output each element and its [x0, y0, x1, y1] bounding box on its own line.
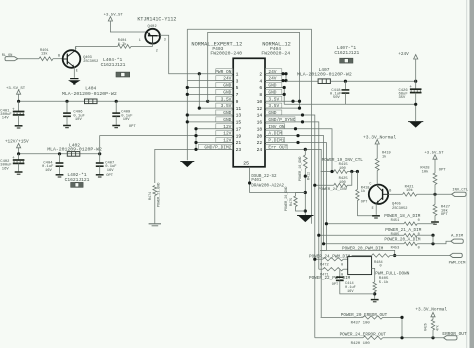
resistor R404 — [118, 45, 131, 49]
svg-text:24: 24 — [257, 147, 263, 153]
resistor R484 — [372, 254, 390, 257]
wire R421 to INV node — [417, 193, 452, 195]
resistor R419 — [375, 159, 379, 171]
wire Q405 collector join — [376, 185, 378, 186]
svg-text:POWER_24_INV: POWER_24_INV — [318, 188, 347, 192]
pin number 19 — [236, 133, 242, 139]
wire R419 to Q405 — [376, 171, 378, 185]
svg-text:RL_ON: RL_ON — [2, 54, 13, 58]
pin number 5 — [236, 85, 239, 91]
wire pin14 row — [265, 115, 315, 338]
wire aux riser — [198, 74, 200, 108]
wire R425 row left — [315, 184, 334, 186]
resistor R427 — [433, 194, 437, 215]
svg-text:0: 0 — [418, 233, 420, 237]
label R412 — [308, 172, 312, 180]
connector P403/P404 body — [233, 58, 265, 167]
wire R418 bottom — [356, 201, 358, 216]
net label left 12V pin 17 — [216, 124, 233, 130]
svg-text:+: + — [12, 107, 15, 112]
label Q405 — [392, 203, 408, 212]
wire pin16 row — [265, 122, 319, 269]
svg-text:+: + — [409, 85, 412, 90]
wire pin13 row — [187, 114, 233, 116]
label P404 — [270, 46, 281, 52]
wire Q402 pin3 to pin1 row — [160, 35, 233, 73]
label POWER_21_A_DIM — [385, 228, 422, 233]
wire pin17 row — [196, 128, 233, 130]
capacitor C426 — [410, 81, 422, 121]
ferrite bead L404-*1 — [116, 72, 129, 77]
wire pin20 row — [265, 136, 324, 244]
svg-text:25: 25 — [243, 160, 249, 166]
wire R427 to ground — [434, 216, 436, 222]
svg-text:L407: L407 — [319, 67, 330, 73]
resistor R437 — [363, 316, 383, 319]
svg-text:R451: R451 — [391, 219, 400, 223]
net label left 24V pin 3 — [216, 76, 233, 82]
power +12V/+15V — [5, 140, 29, 148]
wire L407 to +24V — [330, 80, 415, 82]
wire ERROR row2 — [315, 337, 363, 339]
svg-text:OPT: OPT — [439, 169, 447, 173]
wire R475 bottom — [296, 207, 306, 212]
wire pin18 row — [265, 129, 332, 172]
junction chain b — [304, 191, 307, 194]
svg-text:2SC3052: 2SC3052 — [83, 60, 98, 64]
svg-text:A_DIM: A_DIM — [451, 235, 464, 239]
net label left PWR ON pin 1 — [215, 69, 233, 75]
svg-text:16V: 16V — [347, 290, 354, 294]
pin number 8 — [259, 92, 262, 98]
wire R453 to tag — [417, 241, 451, 244]
junction A node1 — [431, 234, 434, 237]
label C406 — [73, 111, 85, 123]
connector tag ERROR_OUT — [444, 336, 458, 340]
junction GND pin13 — [186, 113, 189, 116]
junction pin25 — [248, 181, 251, 184]
wire +3.5V to R428 — [434, 159, 436, 173]
wire R404 to Q402 base — [131, 45, 153, 47]
label L407-*1 — [334, 45, 359, 56]
wire 3.5V rail — [19, 100, 234, 102]
svg-text:P401: P401 — [251, 179, 262, 183]
label FW20020-240 — [210, 51, 242, 57]
label P403 — [212, 46, 223, 52]
connector tag PWM_DIM — [450, 253, 463, 257]
wire R405 bottom — [374, 292, 376, 299]
svg-text:PWR ON: PWR ON — [215, 69, 232, 75]
label R472 — [320, 263, 343, 267]
svg-text:MLA-201209-0120P-W2: MLA-201209-0120P-W2 — [62, 91, 117, 97]
wire pin3 row — [187, 80, 233, 82]
junction node inv b — [356, 170, 359, 173]
junction R472 left — [313, 258, 316, 261]
junction r24 — [304, 148, 307, 151]
pin number 12 — [257, 106, 263, 112]
wire POWER_20 row — [324, 243, 404, 245]
wire R412 to ground — [304, 169, 306, 216]
ground R427/R451 — [431, 222, 439, 224]
svg-text:DRAW200-A22A2: DRAW200-A22A2 — [251, 184, 284, 188]
label R453 — [391, 246, 420, 250]
junction aux riser bottom — [198, 107, 201, 110]
net label left 12V pin 19 — [216, 131, 233, 137]
svg-text:0: 0 — [341, 263, 343, 267]
ground C409 — [112, 126, 120, 128]
capacitor C409 — [112, 101, 120, 125]
junction pin1 row — [198, 72, 201, 75]
resistor R418 — [356, 190, 359, 201]
svg-text:R420 100: R420 100 — [351, 342, 371, 346]
wire pin22 row — [265, 143, 326, 251]
wire node to R418 — [356, 172, 358, 190]
block PWM_FULL-DOWN R405 — [348, 257, 372, 275]
svg-text:C1621J121: C1621J121 — [101, 62, 126, 68]
svg-text:POWER_23_GND: POWER_23_GND — [158, 183, 162, 207]
svg-text:OPT: OPT — [361, 200, 368, 204]
junction P18 — [325, 222, 328, 225]
ground C401 — [15, 126, 23, 128]
label PWM_DIM — [449, 261, 466, 265]
svg-text:+3.5V_ST: +3.5V_ST — [6, 87, 26, 91]
svg-text:47k: 47k — [436, 325, 440, 331]
svg-text:OPT: OPT — [332, 283, 339, 287]
ground C402 — [15, 172, 23, 174]
wire R471 to block — [343, 268, 347, 270]
label C409 — [121, 111, 136, 129]
svg-text:+12V/+15V: +12V/+15V — [5, 140, 29, 145]
wire POWER_18 row — [326, 223, 404, 225]
power +24V — [398, 52, 418, 59]
junction GND return C426 — [414, 103, 417, 106]
label POWER_26_GND — [285, 187, 289, 211]
capacitor C407 — [96, 154, 104, 174]
wire pin21 row — [196, 142, 233, 144]
svg-text:13: 13 — [236, 113, 242, 119]
junction 12V C404 — [58, 152, 61, 155]
svg-text:0: 0 — [380, 264, 382, 268]
svg-text:+: + — [12, 156, 15, 161]
svg-text:+3.3V_Normal: +3.3V_Normal — [415, 308, 447, 313]
svg-text:2SC3052: 2SC3052 — [392, 207, 408, 211]
resistor R420 — [363, 336, 383, 339]
junction 24V b — [284, 72, 287, 75]
label INV_CTL — [452, 188, 469, 192]
resistor R475 — [294, 193, 297, 207]
junction +24V — [414, 80, 417, 83]
wire GND riser right — [283, 87, 285, 104]
junction node inv a — [350, 170, 353, 173]
capacitor C418 — [342, 81, 350, 104]
power +3.5V_ST right — [424, 151, 444, 159]
resistor R401 — [39, 57, 53, 61]
junction 3.5V r10a — [291, 100, 294, 103]
net label left GND pin 5 — [216, 82, 233, 88]
ground C404 — [56, 175, 64, 177]
label R425 — [339, 177, 349, 185]
svg-text:+3.3V_Normal: +3.3V_Normal — [363, 135, 396, 141]
svg-text:OPT: OPT — [129, 125, 137, 129]
wire Q403 collector — [76, 46, 118, 50]
wire pin19 row — [196, 135, 233, 137]
svg-text:B: B — [58, 55, 60, 59]
svg-text:2: 2 — [156, 49, 158, 53]
resistor R405 — [373, 282, 376, 292]
frame: right page-edge shading — [466, 0, 474, 348]
ground left bus — [180, 162, 194, 168]
inductor L402 — [67, 152, 80, 157]
wire R401 to Q403 base — [53, 58, 63, 60]
svg-text:C: C — [369, 183, 371, 187]
ferrite bead L407-*1 — [340, 58, 353, 63]
svg-text:13k: 13k — [41, 51, 47, 56]
svg-text:9: 9 — [236, 99, 239, 105]
junction rail C406 — [65, 100, 68, 103]
svg-text:0: 0 — [418, 219, 420, 223]
junction 12V pin19 — [194, 134, 197, 137]
transistor Q402 — [145, 29, 160, 44]
label POWER_20_A_DIM — [384, 238, 421, 243]
wire 12V bus — [195, 129, 197, 150]
svg-text:R412: R412 — [308, 172, 312, 180]
wire pin25 — [250, 167, 306, 193]
wire GND return line — [284, 103, 416, 105]
capacitor C401 — [13, 101, 25, 125]
junction r22 — [296, 141, 299, 144]
label R418 — [361, 187, 370, 205]
pin number 16 — [257, 120, 263, 126]
pin number 23 — [236, 147, 242, 153]
label R471 — [320, 273, 343, 277]
svg-text:R472: R472 — [320, 263, 329, 267]
net label right Err OUT pin 24 — [265, 144, 287, 150]
junction A node2 — [431, 242, 434, 245]
svg-text:10: 10 — [257, 99, 263, 105]
svg-text:22: 22 — [257, 140, 263, 146]
label POWER_24_PWM_DIM — [309, 255, 351, 260]
junction rail riser — [206, 100, 209, 103]
junction R405/C414 — [373, 292, 376, 295]
svg-text:17: 17 — [236, 126, 242, 132]
wire A node link — [432, 235, 434, 244]
junction INV node — [433, 193, 436, 196]
net label left GND pin 15 — [216, 117, 233, 123]
label PWM_FULL-DOWN — [375, 272, 410, 285]
ground termination R474 — [149, 224, 161, 226]
capacitor C414 — [336, 269, 375, 294]
wire R484 to tag — [390, 255, 450, 257]
svg-text:6.7k: 6.7k — [118, 42, 127, 47]
label KTJR141C-Y112 — [137, 16, 176, 22]
label R401 value — [40, 49, 49, 57]
junction chain c — [304, 209, 307, 212]
label R404 — [118, 39, 127, 47]
wire R412 chain top — [304, 149, 306, 155]
node RL_ON label — [2, 54, 13, 58]
label ERROR_OUT — [442, 331, 467, 337]
svg-text:3: 3 — [236, 78, 239, 84]
resistor R453 — [404, 242, 417, 245]
wire R415 row left — [321, 171, 334, 173]
svg-text:35V: 35V — [399, 96, 407, 100]
net label right GND/P_SYNC pin 16 — [265, 117, 295, 123]
junction C418 — [344, 80, 347, 83]
wire 3.5V route — [208, 32, 300, 108]
junction 12V pin17 — [194, 127, 197, 130]
junction GND pin5 — [186, 86, 189, 89]
junction 24V c — [281, 79, 284, 82]
connector tag INV_CTL — [452, 192, 467, 196]
resistor R412 — [303, 155, 307, 169]
label C407 — [105, 161, 117, 178]
wire R451 to gnd — [417, 223, 435, 225]
pin number 24 — [257, 147, 263, 153]
junction 3.5V r10b — [298, 100, 301, 103]
connector tag RL_ON — [5, 57, 18, 61]
label R485 — [391, 233, 420, 237]
label POWER_16_GND — [299, 157, 303, 181]
label C404 — [42, 161, 54, 172]
svg-text:100: 100 — [339, 167, 347, 171]
pin number 2 — [259, 71, 262, 77]
ground Q403 emitter — [68, 79, 81, 85]
svg-text:10k: 10k — [422, 169, 430, 174]
label L404 — [62, 85, 117, 96]
svg-text:FW20020-240: FW20020-240 — [210, 51, 242, 57]
pin number 21 — [236, 140, 242, 146]
svg-text:R437 100: R437 100 — [351, 321, 371, 325]
net label right 3.5V pin 12 — [265, 103, 282, 109]
wire R420 to tag — [383, 337, 444, 339]
ground C407 — [96, 175, 104, 177]
capacitor C402 — [13, 154, 25, 172]
connector tag A_DIM — [451, 239, 464, 243]
label C426 — [399, 85, 413, 100]
wire pin5 row — [187, 86, 233, 88]
junction PWM link — [393, 254, 396, 257]
label C401 — [0, 107, 15, 120]
junction r20 — [296, 134, 299, 137]
pin number 4 — [259, 78, 262, 84]
svg-text:E: E — [76, 70, 78, 74]
label R421 — [405, 185, 415, 193]
junction rail C401 — [17, 100, 20, 103]
svg-text:16V: 16V — [45, 169, 53, 173]
svg-text:R426: R426 — [424, 323, 428, 331]
pin number 20 — [257, 133, 263, 139]
svg-text:R485: R485 — [391, 233, 400, 237]
svg-text:1k: 1k — [361, 189, 365, 194]
wire error link — [401, 317, 403, 337]
label R451 — [391, 219, 420, 223]
wire 12V riser — [100, 136, 196, 154]
svg-text:R474: R474 — [149, 192, 153, 200]
svg-text:10k: 10k — [406, 188, 414, 193]
junction 12V pin21 — [194, 141, 197, 144]
junction 12V C402 — [17, 152, 20, 155]
net label left 3.5V pin 11 — [216, 103, 233, 109]
label C414 — [332, 282, 356, 294]
ground R412 chain — [297, 216, 313, 223]
wire +3.3V stem — [376, 144, 378, 158]
resistor R485 — [404, 234, 417, 237]
svg-text:OPT: OPT — [106, 174, 114, 178]
junction rail C409 — [115, 100, 118, 103]
wire R471 row left — [319, 268, 323, 270]
power +3.3V_Normal — [363, 135, 396, 144]
wire pin23 row — [155, 149, 233, 183]
svg-text:10V: 10V — [75, 118, 83, 122]
ground C406 — [63, 126, 71, 128]
junction R425 left — [313, 184, 316, 187]
wire pin9 row (3.5V) — [208, 100, 234, 102]
junction R415 riser — [330, 170, 333, 173]
label POWER_19_INV_CTL — [322, 158, 364, 163]
svg-text:R453: R453 — [391, 246, 400, 250]
label R426 — [424, 323, 440, 331]
net label right A.DIM pin 20 — [265, 131, 282, 137]
svg-text:100: 100 — [339, 181, 347, 185]
wire +3.5V_ST to Q402 pin1 — [110, 21, 146, 32]
pin number 15 — [236, 120, 242, 126]
svg-text:OPT: OPT — [441, 213, 449, 217]
pin number 14 — [257, 113, 263, 119]
junction 12V bus pin23 — [194, 148, 197, 151]
wire left 24V/GND bus — [186, 29, 188, 160]
svg-text:B: B — [389, 190, 391, 194]
junction r14 — [301, 113, 304, 116]
label POWER_18_A_DIM — [384, 214, 421, 219]
junction 24V a — [281, 72, 284, 75]
net label left 12V pin 21 — [216, 138, 233, 144]
svg-text:PWM_FULL-DOWN: PWM_FULL-DOWN — [375, 272, 410, 277]
wire ERROR row1 — [321, 316, 363, 318]
junction 24V d — [284, 79, 287, 82]
svg-text:6: 6 — [259, 85, 262, 91]
wire RL_ON to R401 — [18, 58, 39, 60]
svg-text:16V: 16V — [107, 169, 115, 173]
wire top route 24V — [187, 29, 311, 223]
junction chain a — [304, 175, 307, 178]
power +3.3V_Normal error — [415, 308, 447, 317]
wire pin10 row — [265, 100, 300, 102]
svg-text:E: E — [372, 207, 374, 211]
wire Q405 base out — [388, 193, 403, 195]
ground Q405 emitter — [372, 216, 380, 218]
net label GND/P_DIM2 pin 23 — [199, 144, 233, 150]
svg-text:FW20020-24: FW20020-24 — [261, 51, 290, 57]
label NORMAL_12 — [262, 41, 291, 47]
svg-text:14: 14 — [257, 113, 263, 119]
wire 24V to L407 — [286, 80, 318, 82]
svg-text:16V: 16V — [2, 167, 10, 171]
label DSUB_22-S2 — [251, 175, 284, 189]
pin number 3 — [236, 78, 239, 84]
transistor Q403 — [63, 50, 81, 68]
junction GND r6 — [283, 86, 286, 89]
junction err1 — [400, 316, 403, 319]
junction GND pin7 — [186, 93, 189, 96]
net label right INV_ON pin 18 — [265, 124, 285, 130]
label R484 — [374, 261, 383, 269]
svg-text:2: 2 — [259, 71, 262, 77]
net label right GND pin 6 — [265, 82, 282, 88]
wire pin8 row — [265, 93, 284, 95]
wire pin24 row — [265, 149, 321, 317]
wire 24V riser right — [285, 74, 287, 82]
power +3.5V_ST left — [6, 87, 26, 94]
